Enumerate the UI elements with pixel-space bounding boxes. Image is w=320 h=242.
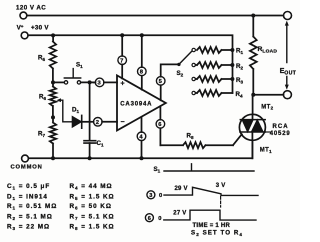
svg-text:CA3094A: CA3094A: [120, 101, 152, 107]
svg-text:2: 2: [96, 120, 99, 126]
svg-text:4: 4: [139, 135, 143, 141]
node top-rail junction: [251, 14, 255, 18]
svg-text:S1: S1: [154, 166, 161, 174]
wire pin2 lead: [102, 121, 117, 123]
terminal output bottom: [283, 91, 291, 99]
pin 5: [161, 64, 179, 100]
svg-text:3: 3: [98, 81, 102, 87]
wire top rail: [27, 15, 283, 17]
svg-text:R3: R3: [236, 77, 243, 85]
wire R6 wiper: [60, 100, 73, 122]
svg-text:MT1: MT1: [260, 148, 272, 154]
svg-text:R3 = 22 MΩ: R3 = 22 MΩ: [7, 224, 50, 232]
node load bottom junction: [251, 93, 255, 97]
node R5 top: [51, 33, 55, 37]
svg-text:R6 = 50 KΩ: R6 = 50 KΩ: [70, 203, 112, 211]
resistor R2: [195, 62, 232, 68]
svg-text:RLOAD: RLOAD: [258, 46, 278, 55]
svg-text:R8 = 1.5 KΩ: R8 = 1.5 KΩ: [70, 224, 115, 232]
resistor R8: [160, 142, 233, 148]
resistor R3: [195, 76, 232, 82]
wire C1 drop: [89, 82, 91, 140]
svg-text:R5: R5: [38, 55, 45, 63]
svg-text:R1: R1: [236, 48, 243, 56]
node R2 right: [230, 63, 234, 67]
wire D1 to pin2: [82, 121, 94, 123]
wire gate diagonal: [233, 134, 242, 145]
wire junction to S1: [53, 81, 64, 83]
wire triac MT1: [251, 140, 253, 158]
pin 6 waveform bubble: [145, 214, 153, 222]
svg-text:C1: C1: [97, 140, 104, 148]
pin 7: [121, 35, 123, 78]
svg-text:MT2: MT2: [261, 104, 273, 110]
svg-text:27 V: 27 V: [173, 210, 186, 216]
terminal COMMON: [22, 155, 29, 162]
resistor R6 potentiometer: [50, 82, 56, 117]
svg-text:R7 = 5.1 KΩ: R7 = 5.1 KΩ: [70, 213, 115, 221]
svg-text:R2: R2: [236, 63, 243, 71]
svg-text:R2 = 5.1 MΩ: R2 = 5.1 MΩ: [7, 213, 53, 221]
wire Eout arrow: [286, 24, 288, 88]
op-amp U1 CA3094A: [117, 75, 166, 130]
pin 8: [141, 35, 143, 89]
svg-text:R1 = 0.51 MΩ: R1 = 0.51 MΩ: [7, 203, 57, 211]
terminal 120VAC: [20, 12, 27, 19]
wire pin3 lead: [94, 81, 96, 83]
svg-text:EOUT: EOUT: [280, 66, 297, 76]
svg-text:+: +: [121, 81, 125, 88]
wire pin3 waveform: [164, 187, 258, 195]
svg-text:R6: R6: [39, 94, 46, 102]
node R1 right: [230, 48, 234, 52]
terminal V+: [21, 32, 28, 39]
node pin7 top: [120, 33, 124, 37]
wire to output bottom terminal: [253, 94, 283, 96]
resistor R4: [195, 90, 232, 96]
svg-text:6: 6: [158, 122, 162, 128]
capacitor C1: [84, 141, 96, 143]
wire S1 to pin3: [81, 81, 96, 83]
svg-text:V+: V+: [17, 24, 24, 32]
svg-text:R4: R4: [236, 91, 243, 99]
resistor R_LOAD: [250, 16, 257, 95]
svg-text:D1: D1: [72, 107, 79, 115]
wire dashed time marker: [220, 197, 222, 208]
resistor R7: [50, 117, 56, 158]
svg-text:+30 V: +30 V: [31, 25, 49, 32]
node pin3 junction: [88, 80, 92, 84]
node R7 bottom: [51, 156, 55, 160]
switch S1: [64, 81, 80, 84]
resistor R1: [197, 47, 232, 53]
triac Q1 RCA 40529: [252, 95, 254, 115]
svg-text:R8: R8: [187, 133, 194, 141]
wire common rail: [29, 140, 253, 158]
wire V+ rail: [28, 35, 232, 93]
svg-text:D1 = IN914: D1 = IN914: [7, 193, 48, 201]
svg-text:S1: S1: [76, 62, 83, 70]
svg-text:S2: S2: [177, 70, 184, 78]
svg-text:RCA: RCA: [273, 124, 289, 130]
svg-text:40529: 40529: [270, 131, 291, 137]
pin 3: [95, 78, 104, 87]
svg-text:0: 0: [159, 193, 162, 199]
svg-text:0: 0: [158, 216, 161, 222]
pin 4: [141, 118, 143, 159]
terminal output top: [284, 12, 292, 20]
wire pin6 waveform: [164, 210, 256, 220]
svg-text:29 V: 29 V: [175, 186, 188, 192]
resistor R5: [50, 35, 56, 82]
wire 40529 leader: [265, 131, 270, 133]
pin 2: [94, 118, 103, 127]
svg-text:120 V AC: 120 V AC: [16, 4, 46, 11]
node pin8 top: [140, 33, 144, 37]
svg-text:7: 7: [120, 58, 123, 64]
svg-text:S2 SET TO R4: S2 SET TO R4: [191, 230, 243, 237]
wire S1 waveform baseline: [164, 164, 254, 171]
switch S2: [177, 63, 180, 66]
svg-text:R7: R7: [38, 131, 45, 139]
node pin4 bottom: [140, 156, 144, 160]
node C1 bottom: [88, 156, 92, 160]
svg-text:−: −: [121, 119, 125, 126]
pin 3 waveform bubble: [147, 191, 155, 199]
svg-text:6: 6: [148, 216, 151, 222]
node R6-R7 junction: [51, 115, 55, 119]
node S1 left junction: [51, 80, 55, 84]
svg-text:C1 = 0.5 μF: C1 = 0.5 μF: [7, 183, 50, 191]
pin 6: [159, 106, 161, 145]
node R3 right: [230, 77, 234, 81]
svg-text:COMMON: COMMON: [11, 164, 43, 170]
svg-text:8: 8: [140, 70, 144, 76]
svg-text:3 V: 3 V: [216, 183, 226, 189]
svg-text:R5 = 1.5 KΩ: R5 = 1.5 KΩ: [70, 193, 115, 201]
diode D1: [72, 117, 81, 128]
svg-text:5: 5: [159, 79, 163, 85]
svg-text:R4 = 44 MΩ: R4 = 44 MΩ: [70, 183, 113, 191]
svg-text:TIME = 1 HR: TIME = 1 HR: [193, 223, 231, 229]
svg-text:3: 3: [149, 193, 152, 199]
